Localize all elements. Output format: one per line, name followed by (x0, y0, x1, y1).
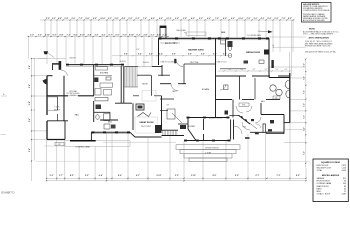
wall: kitchen west x=93.7 (93, 65, 95, 96)
leftmost extension x=28.3 (27, 37, 29, 59)
rotated texts left column (29, 65, 31, 152)
svg-text:MASTER SUITE: MASTER SUITE (188, 48, 204, 51)
svg-text:7'-2": 7'-2" (303, 115, 305, 119)
room labels (54, 43, 260, 128)
svg-text:EXHIBIT D: EXHIBIT D (1, 191, 14, 195)
svg-text:STUDY: STUDY (54, 110, 61, 112)
ticks on string A (44, 19, 293, 20)
svg-text:6'-6": 6'-6" (207, 18, 211, 20)
bottom dim text row y=175.5 (50, 174, 301, 177)
hose bib blob exterior (44, 51, 48, 54)
svg-text:5'-2": 5'-2" (285, 69, 288, 71)
wall: y=137 x135-161.5 (135, 136, 162, 138)
svg-text:7'-2": 7'-2" (303, 90, 305, 94)
wall x=284 y114.5-133.6 (283, 115, 285, 134)
master south wall y=83.7 (160, 83, 171, 85)
svg-text:4'-2": 4'-2" (70, 174, 74, 177)
svg-text:U.N.O. — SEE STRUCTURAL SHEETS: U.N.O. — SEE STRUCTURAL SHEETS (303, 33, 334, 36)
svg-text:2'-0": 2'-0" (50, 175, 54, 177)
svg-text:2'-0": 2'-0" (30, 34, 34, 36)
front door recess (52, 65, 54, 70)
svg-text:8'-3": 8'-3" (288, 18, 292, 20)
svg-text:3050 SH: 3050 SH (69, 57, 75, 59)
stair rail y=87 (125, 86, 139, 88)
great room tray outline (135, 117, 158, 133)
left dim vertical x=31.5 (31, 58, 33, 181)
wall x=239.5 y76-99.5 (239, 76, 241, 100)
bath small fixture (224, 85, 229, 90)
svg-text:10'-6": 10'-6" (238, 18, 243, 20)
optional slider note (67, 90, 81, 97)
svg-text:7'-2": 7'-2" (303, 63, 305, 67)
wall: top y=38.3 x158.5-269 (159, 37, 270, 39)
chimney bump top x160-166 (160, 28, 166, 39)
dark bar x272 y60-68 (271, 60, 273, 68)
staircase upper treads (125, 67, 137, 88)
wall: x=110 (109, 112, 111, 120)
svg-text:6'-9": 6'-9" (274, 18, 278, 20)
wall: patio east x=64 (63, 76, 65, 121)
dark blob x180-186 y125-129 (180, 125, 186, 129)
wall: y=103.2 x115-132 (115, 102, 132, 104)
svg-text:7'-2": 7'-2" (276, 175, 280, 177)
svg-text:6040 SL.: 6040 SL. (120, 61, 127, 63)
svg-text:7'-0": 7'-0" (281, 18, 285, 20)
svg-text:7'-5": 7'-5" (122, 34, 126, 36)
svg-text:8'-6": 8'-6" (73, 34, 77, 36)
svg-text:GARAGE: GARAGE (317, 177, 325, 180)
svg-text:USE (22) ROOF VENTS @ 0.61 S.F: USE (22) ROOF VENTS @ 0.61 S.F. EA. (305, 50, 336, 53)
patio door arc master (176, 60, 183, 67)
svg-text:KITCHEN: KITCHEN (100, 72, 109, 74)
wall: west exterior x=47 (46, 76, 48, 115)
laundry curvy fixtures (270, 80, 290, 98)
master east wall x=215.5 (215, 38, 217, 117)
dimension string A y=20 (40, 19, 295, 21)
svg-text:DINING ROOM: DINING ROOM (209, 118, 222, 120)
svg-text:5'-2": 5'-2" (253, 69, 256, 71)
diagonal wall NE of porch (238, 115, 250, 124)
svg-text:HALL: HALL (75, 113, 80, 116)
svg-text:2'-3": 2'-3" (108, 18, 112, 20)
wall: y=120.8 (47, 120, 68, 122)
svg-text:8'-4": 8'-4" (223, 53, 227, 56)
door arc master (171, 84, 178, 91)
lanai heavy edge line y=140.7 (70, 140, 96, 142)
right extension h-lines (269, 36, 306, 38)
wall x=184 y64-83.7 (183, 64, 185, 84)
svg-text:10'-0": 10'-0" (100, 18, 105, 20)
svg-text:12'-0" CLG.: 12'-0" CLG. (190, 62, 199, 64)
svg-text:9'-3": 9'-3" (136, 34, 140, 36)
svg-text:6'-0": 6'-0" (115, 34, 119, 36)
media room west bath wall x=225.5 (225, 38, 227, 56)
svg-text:8'-4": 8'-4" (172, 53, 176, 56)
svg-text:3'-10": 3'-10" (191, 175, 196, 177)
boxed gas note (302, 3, 332, 23)
svg-text:9'-6": 9'-6" (29, 101, 31, 105)
extension lines A to B (45, 20, 293, 52)
svg-text:COVERED LANAI: COVERED LANAI (317, 182, 332, 185)
wall y=99 x160-174 (160, 98, 174, 100)
upper module west wall x=158.5 (158, 38, 160, 65)
leader arrow NE (258, 30, 268, 33)
svg-text:W.I.C.: W.I.C. (173, 91, 178, 93)
svg-text:9'-9": 9'-9" (93, 18, 97, 20)
ticks right column (305, 59, 306, 164)
svg-text:B.B.: B.B. (222, 32, 226, 34)
covered lanai outline (65, 141, 130, 146)
ticks bottom pair (46, 178, 307, 182)
svg-text:5'-2": 5'-2" (241, 69, 244, 71)
svg-text:8'-4": 8'-4" (124, 53, 128, 56)
svg-text:6'-8": 6'-8" (59, 34, 63, 36)
leader from blob (48, 53, 54, 58)
svg-text:5040 SL.: 5040 SL. (143, 62, 150, 64)
svg-text:8'-4": 8'-4" (149, 53, 153, 56)
svg-text:2'-6": 2'-6" (175, 18, 179, 20)
interior dim string y=55.8 (112, 55, 230, 57)
svg-text:3'-7": 3'-7" (59, 175, 63, 177)
svg-text:LINE OF CLG.: LINE OF CLG. (217, 61, 228, 63)
square footage table (313, 159, 348, 202)
svg-text:7'-3": 7'-3" (78, 18, 82, 20)
porch steps nested (176, 145, 240, 162)
north great room stubs y=95.8 (133, 95, 139, 97)
connector y=65 x152-162 (152, 66, 162, 68)
wall y=135.5 x161.5-184 (162, 135, 185, 137)
misc small labels (54, 61, 211, 155)
wall: y=95.8 (47, 95, 68, 97)
svg-text:4'-9": 4'-9" (121, 17, 125, 20)
bath fixtures left (95, 98, 110, 121)
wall y=117.5 foyer north (187, 117, 230, 119)
wall: x=91.4 y132.3-140.7 (90, 132, 92, 140)
svg-text:2'-3": 2'-3" (175, 175, 179, 177)
svg-text:9'-6": 9'-6" (29, 118, 31, 122)
dim texts above string A (46, 17, 292, 20)
front door arc (61, 70, 68, 76)
svg-text:8'-10": 8'-10" (129, 34, 134, 36)
swing diagonal at powder (250, 123, 257, 128)
svg-text:OPT.: OPT. (58, 144, 62, 146)
wall x=151.5 y75-95.8 (151, 75, 153, 96)
svg-text:7'-2": 7'-2" (303, 103, 305, 107)
svg-text:3'-9": 3'-9" (94, 34, 98, 36)
diagonal closet door (172, 113, 182, 123)
bay sw walls (187, 118, 189, 130)
svg-text:PATIO: PATIO (317, 187, 323, 190)
svg-text:4,006: 4,006 (342, 170, 347, 172)
svg-text:2'-8": 2'-8" (143, 34, 147, 36)
svg-text:5'-7": 5'-7" (108, 34, 112, 36)
left extension h-lines (32, 58, 48, 60)
svg-text:MUD: MUD (108, 122, 113, 124)
wall y=64 x184-215.5 (184, 63, 216, 65)
wall y=114.5 x261-284 (261, 114, 284, 116)
svg-text:4'-3": 4'-3" (260, 17, 264, 20)
svg-text:10'-8": 10'-8" (156, 175, 161, 177)
svg-text:9'-11": 9'-11" (80, 34, 85, 36)
svg-text:9'-0": 9'-0" (159, 18, 163, 20)
great room west wall x=133 (132, 103, 134, 130)
svg-text:5'-6": 5'-6" (267, 18, 271, 20)
ticks left column (31, 58, 35, 162)
svg-text:5'-3": 5'-3" (52, 34, 56, 36)
svg-text:8'-4": 8'-4" (201, 53, 205, 56)
svg-text:COVERED LANAI: COVERED LANAI (75, 145, 90, 148)
wall: y=112.3 bath (94, 111, 110, 113)
bottom dim line pair y=178.3/180.7 (47, 177, 307, 179)
svg-text:NOTE:: NOTE: (309, 29, 316, 31)
wall y=130.2 x161.5-178 (162, 129, 179, 131)
svg-text:MEDIA ROOM: MEDIA ROOM (246, 51, 260, 54)
boxed laundry label (239, 103, 249, 106)
svg-text:POCKET SLIDING: POCKET SLIDING (67, 93, 81, 95)
kitchen cabinets (95, 67, 113, 95)
svg-text:9'-3": 9'-3" (231, 18, 235, 20)
fireplace media (264, 50, 269, 55)
connector wall y=115.5 (229, 115, 238, 117)
svg-text:5'-2": 5'-2" (276, 69, 279, 71)
planter rect above wall (186, 32, 206, 35)
front wall y=140.5 x184-230.5 (184, 140, 231, 142)
great room ceiling zigzag (138, 113, 152, 117)
svg-text:2'-9": 2'-9" (246, 18, 250, 20)
svg-text:8'-0": 8'-0" (223, 18, 227, 20)
angled jog south wall (130, 132, 135, 137)
wall y=124 x178-188 (178, 123, 188, 125)
svg-text:8'-4": 8'-4" (188, 53, 192, 56)
svg-text:5'-0": 5'-0" (128, 18, 132, 20)
garage right wall x=289.8 (289, 73, 291, 123)
dark blob w/d (270, 120, 274, 123)
svg-text:8'-6": 8'-6" (118, 175, 122, 177)
svg-text:6'-4": 6'-4" (99, 174, 103, 177)
kitchen dark bits (94, 78, 98, 83)
svg-text:7'-1": 7'-1" (66, 34, 70, 36)
wall x=255 y78-99.5 (254, 78, 256, 100)
boxed storage label (273, 96, 280, 99)
svg-text:5'-3": 5'-3" (199, 18, 203, 20)
svg-text:6'-7": 6'-7" (255, 175, 259, 177)
hall fixture blob (225, 111, 229, 115)
svg-text:7'-9": 7'-9" (215, 18, 219, 20)
wall y=76 x215.5-290 (216, 75, 247, 77)
svg-text:M. BATH: M. BATH (202, 88, 210, 91)
left margin dash low (1, 134, 7, 136)
ticks on string B (28, 36, 169, 37)
svg-text:PWD.: PWD. (243, 127, 247, 129)
svg-text:UTIL.: UTIL. (242, 105, 246, 107)
garage ne junction y=77.5 x269-289.8 (269, 77, 290, 79)
svg-text:9'-6": 9'-6" (29, 148, 31, 152)
svg-text:SQUARE FOOTAGE: SQUARE FOOTAGE (321, 161, 341, 164)
door arcs right module (220, 84, 261, 123)
svg-text:9'-6": 9'-6" (29, 65, 31, 69)
mud room dark fixtures (104, 124, 110, 129)
svg-text:ATTIC VENTILATION: ATTIC VENTILATION (309, 37, 330, 40)
svg-text:4'-10": 4'-10" (45, 33, 50, 36)
wall: x=65 y120.8-139.5 (64, 121, 66, 140)
dark blob at garage door left (268, 129, 272, 131)
svg-text:3'-5": 3'-5" (38, 34, 42, 36)
wall x=233 y99.5-117.5 (232, 100, 234, 118)
svg-text:PROVIDE 50% HIGH / 50% LOW: PROVIDE 50% HIGH / 50% LOW (305, 46, 331, 48)
svg-text:3'-0": 3'-0" (253, 18, 257, 20)
kitchen counter y=75.3 (94, 74, 112, 76)
wall x=203.5 dining west (203, 119, 205, 130)
svg-text:8'-6": 8'-6" (85, 18, 89, 20)
svg-text:FRONT PORCH: FRONT PORCH (205, 148, 219, 150)
svg-text:4'-2": 4'-2" (136, 49, 140, 51)
svg-text:8'-4": 8'-4" (138, 53, 142, 56)
svg-text:5'-2": 5'-2" (265, 69, 268, 71)
wall: great room south y=132.3 x91.4-130 (91, 131, 130, 133)
svg-text:4'-6": 4'-6" (157, 33, 161, 36)
fireplace dark great room (155, 125, 162, 133)
extension lines B to house top (47, 37, 152, 67)
light line y=161.2 (36, 160, 310, 162)
svg-text:ALL ROUTING W/ BUILDER.: ALL ROUTING W/ BUILDER. (303, 19, 326, 22)
west wall x=162 y65-76 (161, 65, 163, 76)
wall y=99.5 x215.5-280 (216, 99, 233, 101)
dim texts above string B (30, 33, 168, 36)
svg-text:7'-6": 7'-6" (143, 18, 147, 20)
svg-text:6'-0": 6'-0" (71, 18, 75, 20)
svg-text:TOTAL U. ROOF: TOTAL U. ROOF (317, 193, 331, 196)
svg-text:9'-1": 9'-1" (136, 175, 140, 177)
breakfast wall y=75.2 x137-170 (137, 74, 151, 76)
svg-text:4'-5": 4'-5" (212, 174, 216, 177)
thick wall x=121.2-123.8 (120, 66, 122, 103)
svg-text:5'-0": 5'-0" (273, 44, 275, 48)
svg-text:9'-6": 9'-6" (29, 84, 31, 88)
powder south wall y=132.3 (250, 131, 267, 133)
svg-text:5'-9": 5'-9" (85, 175, 89, 177)
svg-text:4'-2": 4'-2" (101, 33, 105, 36)
patio slab line left y=146 (44, 145, 66, 147)
svg-text:10'-3": 10'-3" (166, 18, 171, 20)
wall: top-left patio edge y=75.7 (47, 75, 53, 77)
wall: left wing south y=139.5 (47, 139, 65, 141)
rotated texts right column (303, 63, 305, 155)
svg-text:4'-0": 4'-0" (191, 17, 195, 20)
garage se step wall y=122.6 (284, 122, 290, 124)
interior dim string y=71 right (218, 70, 290, 72)
svg-text:2'-0": 2'-0" (46, 18, 50, 20)
svg-text:7'-2": 7'-2" (303, 127, 305, 131)
closet by garage entry (262, 124, 264, 132)
svg-text:FOYER: FOYER (188, 126, 195, 128)
svg-text:2'-4": 2'-4" (87, 33, 91, 36)
svg-text:LOCATION PRIOR TO ROUGH-IN.: LOCATION PRIOR TO ROUGH-IN. (303, 9, 330, 12)
svg-text:5' CLG.: 5' CLG. (54, 107, 60, 109)
svg-text:6'-3": 6'-3" (135, 18, 139, 20)
svg-text:8'-4": 8'-4" (159, 53, 163, 56)
wall y=110.5 x160-168 (160, 110, 168, 112)
front door leaf (59, 61, 62, 70)
svg-text:7'-2": 7'-2" (303, 151, 305, 155)
left dim vertical x=34.2 (33, 58, 35, 161)
master suite sub texts (161, 41, 228, 64)
stair top edge y=66.5 (125, 66, 139, 68)
dark island x136-144 y104-110 (136, 104, 144, 110)
svg-text:REAR PORCH: REAR PORCH (317, 185, 330, 188)
foyer door arcs (234, 122, 250, 134)
light line y=58.5 over left wing (38, 58, 66, 60)
sink fixture blob (251, 119, 254, 121)
porch ne dark dashes (245, 137, 250, 139)
svg-text:8'-9": 8'-9" (151, 18, 155, 20)
extension verticals to bottom dims (47, 123, 307, 181)
front door vestibule x=230.6/233.5 (230, 120, 232, 140)
light shelf y=110.5 (47, 110, 58, 112)
media right wall x=269 (268, 38, 270, 77)
svg-text:3'-9": 3'-9" (183, 18, 187, 20)
stairs lower block (163, 130, 177, 135)
svg-text:3'-3": 3'-3" (52, 18, 56, 20)
boxed note left lanai (55, 142, 64, 145)
upper ceiling rect great room (142, 91, 156, 102)
svg-text:19'-0" X 23'-6": 19'-0" X 23'-6" (141, 126, 152, 128)
svg-text:5'-0": 5'-0" (235, 175, 239, 177)
right dim vertical x=305.8 (305, 59, 307, 168)
svg-text:MISCELLANEOUS: MISCELLANEOUS (322, 174, 340, 177)
garage door front pair (266, 131, 284, 133)
svg-text:5,389: 5,389 (342, 194, 347, 196)
svg-text:GREAT ROOM: GREAT ROOM (139, 121, 153, 124)
svg-text:4'-6": 4'-6" (58, 17, 62, 20)
media small fixtures bottom (244, 61, 249, 64)
svg-text:8'-9": 8'-9" (296, 175, 300, 177)
overhang line y=66.8 x138-152 (138, 66, 152, 68)
wall x=261 y103-114.5 (260, 103, 262, 115)
wall: x=57.5 closet (57, 97, 59, 110)
svg-text:5'-11": 5'-11" (162, 34, 167, 36)
wall: y=120 x100-118 (100, 119, 118, 121)
walkway line y=142.2 (103, 141, 176, 143)
svg-text:NOOK: NOOK (142, 84, 148, 86)
svg-text:TOTAL: TOTAL (317, 169, 323, 172)
wall: top window wall y=64.6 x66-124 (66, 64, 124, 66)
door swing blob west wall (43, 79, 48, 85)
shower rect (167, 109, 175, 119)
svg-text:5'-9": 5'-9" (64, 18, 68, 20)
wall y=68.8 x220-246 (220, 68, 246, 70)
wall x=161.5 y95.8-130 (161, 96, 163, 130)
svg-text:5'-2": 5'-2" (229, 69, 232, 71)
bath fixtures media (221, 40, 232, 58)
svg-text:3'-1": 3'-1" (150, 34, 154, 36)
svg-text:3'-6": 3'-6" (114, 18, 118, 20)
garage corner extension lines up to A (289, 52, 291, 76)
dimension string B y=36.5 (28, 36, 168, 38)
svg-text:4" STEP: 4" STEP (205, 153, 211, 155)
